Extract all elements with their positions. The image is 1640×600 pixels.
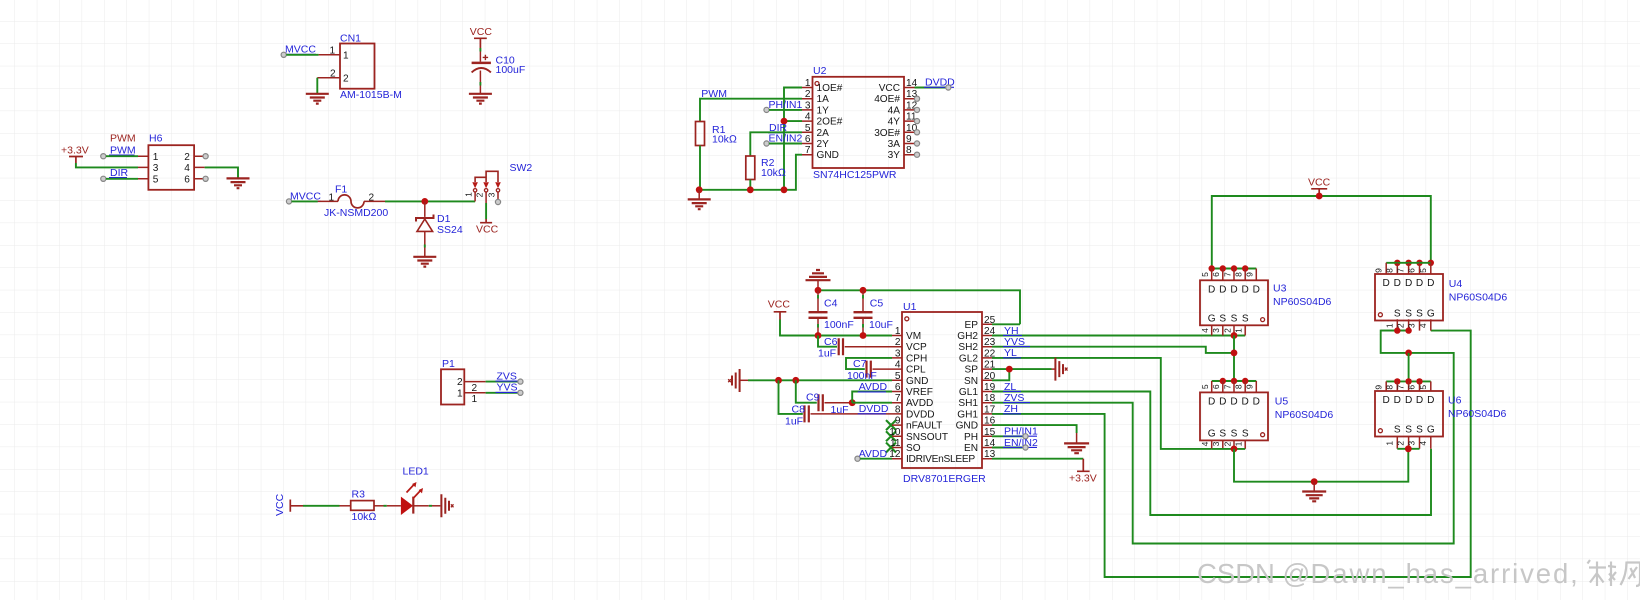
junction C4 bottom xyxy=(815,332,822,339)
svg-text:D: D xyxy=(1416,395,1423,406)
svg-text:GND: GND xyxy=(906,376,928,387)
svg-text:G: G xyxy=(1427,309,1435,320)
svg-text:1: 1 xyxy=(1234,441,1244,446)
svg-text:3: 3 xyxy=(1407,323,1417,328)
wire YL (GL2 to U5 gate) xyxy=(992,358,1212,449)
svg-text:1: 1 xyxy=(464,192,474,197)
svg-text:1Y: 1Y xyxy=(817,105,830,116)
svg-text:D: D xyxy=(1219,397,1226,408)
svg-text:S: S xyxy=(1405,309,1412,320)
svg-text:10kΩ: 10kΩ xyxy=(352,511,377,523)
wire PH/IN1 xyxy=(769,109,802,111)
svg-text:+3.3V: +3.3V xyxy=(61,144,89,156)
svg-text:1: 1 xyxy=(1234,328,1244,333)
svg-text:GND: GND xyxy=(817,150,839,161)
wire CN1 pin2 to ground xyxy=(316,78,318,94)
svg-text:1: 1 xyxy=(472,394,478,405)
net label YVS (P1) xyxy=(496,382,520,394)
svg-text:G: G xyxy=(1208,428,1216,439)
wire Y phase vertical xyxy=(1233,336,1235,382)
svg-text:4OE#: 4OE# xyxy=(874,94,900,105)
power flag VCC (bridge) xyxy=(1308,176,1331,196)
svg-text:5: 5 xyxy=(1200,384,1210,389)
svg-text:D: D xyxy=(1208,285,1215,296)
svg-text:1: 1 xyxy=(1384,323,1394,328)
net label DVDD (U1) xyxy=(858,403,889,415)
svg-text:2: 2 xyxy=(895,337,901,348)
port circle P1 pin2 xyxy=(518,379,523,384)
net label MVCC (F1) xyxy=(289,191,321,203)
svg-text:2: 2 xyxy=(472,383,478,394)
svg-text:1: 1 xyxy=(895,326,901,337)
svg-text:25: 25 xyxy=(984,315,996,326)
U1 pin numbers left xyxy=(889,326,901,460)
svg-text:10uF: 10uF xyxy=(869,319,893,331)
svg-text:3: 3 xyxy=(153,163,159,174)
connector H6 xyxy=(138,132,205,189)
wire DIR to pin5 and R2 xyxy=(750,132,802,156)
no-connect X SNSOUT xyxy=(886,431,896,441)
wire EP lead join xyxy=(992,323,1020,325)
wire R2 to gnd bus xyxy=(749,180,751,190)
svg-text:C5: C5 xyxy=(870,298,884,310)
ground (U1 pin16) xyxy=(1064,443,1089,453)
U6 pin names S S S G xyxy=(1394,425,1435,436)
svg-text:CSDN @Dawn_has_arrived,: CSDN @Dawn_has_arrived, xyxy=(1197,558,1580,589)
svg-text:S: S xyxy=(1242,313,1249,324)
svg-text:D: D xyxy=(1427,395,1434,406)
svg-text:VCC: VCC xyxy=(879,83,900,94)
junction YVS tap xyxy=(1231,350,1238,357)
svg-text:1: 1 xyxy=(343,50,349,61)
svg-text:D: D xyxy=(1219,285,1226,296)
svg-text:SW2: SW2 xyxy=(510,162,533,174)
svg-text:AM-1015B-M: AM-1015B-M xyxy=(340,89,402,101)
svg-text:6: 6 xyxy=(805,134,811,145)
wire gnd bus U2 xyxy=(699,155,802,190)
connector P1 xyxy=(441,358,486,404)
svg-text:SH1: SH1 xyxy=(958,398,978,409)
svg-text:JK-NSMD200: JK-NSMD200 xyxy=(324,207,388,219)
U4 top pin numbers xyxy=(1373,268,1428,273)
capacitor C7 xyxy=(846,358,892,382)
net label EN/IN2 xyxy=(768,133,803,145)
svg-text:GL2: GL2 xyxy=(959,353,978,364)
svg-text:3: 3 xyxy=(1407,441,1417,446)
svg-text:9: 9 xyxy=(1245,384,1255,389)
svg-text:7: 7 xyxy=(1222,272,1232,277)
svg-text:G: G xyxy=(1208,313,1216,324)
wire DIR to H6 pin5 xyxy=(106,178,138,180)
junction gnd bus b xyxy=(747,186,754,193)
U3 pin names D xyxy=(1208,285,1260,296)
svg-text:U3: U3 xyxy=(1273,282,1287,294)
junction U6 source xyxy=(1405,445,1412,452)
junction U3 source to YVS xyxy=(1231,332,1238,339)
svg-text:H6: H6 xyxy=(149,132,163,144)
wire EN/IN2 (pin14) xyxy=(992,447,1025,449)
svg-text:IDRIVEnSLEEP: IDRIVEnSLEEP xyxy=(906,454,975,465)
wire ZVS (P1 pin2) xyxy=(486,381,518,383)
transistor U6 NP60S04D6 xyxy=(1375,381,1507,448)
wire H6 pin4 to ground xyxy=(205,167,238,178)
svg-text:2A: 2A xyxy=(817,128,830,139)
no-connect X SO xyxy=(886,443,896,453)
wire U3 drain bar xyxy=(1212,268,1257,270)
net label ZVS xyxy=(1003,392,1030,404)
svg-text:9: 9 xyxy=(1373,268,1383,273)
wire pin1 bus vertical xyxy=(784,88,802,190)
svg-text:1A: 1A xyxy=(817,94,830,105)
wire MVCC to CN1 pin1 xyxy=(286,54,318,56)
svg-text:S: S xyxy=(1242,428,1249,439)
svg-text:S: S xyxy=(1416,425,1423,436)
no-connect ground (U1 GND pin5) xyxy=(728,369,748,392)
power flag VCC (SW2) xyxy=(476,219,499,236)
svg-text:VCP: VCP xyxy=(906,342,927,353)
port circle EN/IN2 xyxy=(764,141,769,146)
svg-text:6: 6 xyxy=(184,174,190,185)
svg-text:+3.3V: +3.3V xyxy=(1069,473,1097,485)
wire +3.3V to H6 pin3 xyxy=(76,163,138,167)
net label YVS xyxy=(1003,336,1030,348)
U6 top pin numbers xyxy=(1373,385,1428,390)
wire ZVS (SH1 to Z phase) xyxy=(992,331,1454,544)
svg-text:4: 4 xyxy=(184,163,190,174)
svg-text:S: S xyxy=(1219,313,1226,324)
svg-text:F1: F1 xyxy=(335,184,347,196)
net label MVCC xyxy=(284,44,316,56)
svg-text:6: 6 xyxy=(1407,385,1417,390)
port circle PH/IN1 U1 xyxy=(1023,434,1028,439)
junction gnd rail tap xyxy=(1311,478,1318,485)
wire GND row pin5 xyxy=(748,379,892,381)
svg-text:6: 6 xyxy=(895,382,901,393)
svg-text:NP60S04D6: NP60S04D6 xyxy=(1275,409,1334,421)
wire U5 source to gnd rail xyxy=(1234,449,1408,482)
wire F1 to SW2 xyxy=(385,200,475,202)
svg-text:10kΩ: 10kΩ xyxy=(761,167,786,179)
wire VCC to R3 xyxy=(303,505,340,507)
svg-text:2: 2 xyxy=(805,89,811,100)
svg-text:9: 9 xyxy=(1245,272,1255,277)
svg-text:4: 4 xyxy=(805,112,811,123)
wire PWM to H6 pin1 xyxy=(106,155,138,157)
svg-text:NP60S04D6: NP60S04D6 xyxy=(1273,296,1332,308)
svg-text:3: 3 xyxy=(486,192,496,197)
svg-text:S: S xyxy=(1231,313,1238,324)
svg-text:VM: VM xyxy=(906,331,921,342)
U1 pin names right xyxy=(956,320,979,454)
wire stub LED-nc xyxy=(429,505,432,507)
wire VCC to VM row xyxy=(780,320,892,336)
no-connect ground (SP/SN) xyxy=(1052,358,1068,381)
U3 bottom pin numbers xyxy=(1200,328,1244,333)
wire YH (GH2 to U3 gate/sources) xyxy=(992,335,1245,337)
svg-text:12: 12 xyxy=(889,449,901,460)
junction U6 drain pins xyxy=(1394,378,1423,384)
svg-text:CN1: CN1 xyxy=(340,32,361,44)
wire VCC rail to U3/U4 drains xyxy=(1212,196,1431,269)
svg-text:SP: SP xyxy=(965,365,979,376)
net label DIR (U2) xyxy=(768,122,788,134)
svg-text:S: S xyxy=(1416,309,1423,320)
net label PH/IN1 xyxy=(768,99,803,111)
wire MVCC to F1 xyxy=(292,200,318,202)
svg-text:2OE#: 2OE# xyxy=(817,117,843,128)
junction C5 top xyxy=(860,287,867,294)
capacitor C9 xyxy=(796,380,852,416)
svg-text:D: D xyxy=(1405,395,1412,406)
ground (bridge) xyxy=(1302,492,1326,502)
net label DVDD (U2) xyxy=(924,77,955,89)
U3 top pin numbers xyxy=(1200,272,1255,277)
svg-text:NP60S04D6: NP60S04D6 xyxy=(1448,408,1507,420)
svg-text:PH: PH xyxy=(964,432,978,443)
svg-text:D: D xyxy=(1230,285,1237,296)
svg-text:C4: C4 xyxy=(824,298,838,310)
port circle MVCC F1 xyxy=(286,199,291,204)
svg-text:GH1: GH1 xyxy=(957,409,978,420)
svg-text:3Y: 3Y xyxy=(888,150,901,161)
wire YVS (P1 pin1) xyxy=(486,392,518,394)
net label DIR xyxy=(109,167,129,179)
wire SW2 pin2 to VCC xyxy=(485,203,487,219)
svg-text:7: 7 xyxy=(1396,268,1406,273)
resistor R1 xyxy=(696,122,738,146)
wire stub gnd xyxy=(698,190,700,199)
inverted ground (above C4) xyxy=(806,270,831,290)
svg-text:S: S xyxy=(1231,428,1238,439)
svg-text:D: D xyxy=(1405,278,1412,289)
svg-text:U5: U5 xyxy=(1275,396,1289,408)
svg-text:D: D xyxy=(1383,395,1390,406)
svg-text:1: 1 xyxy=(457,388,463,399)
capacitor C10 polarized xyxy=(472,52,526,83)
wire U5 source bar xyxy=(1212,448,1246,450)
junction C4 top xyxy=(815,287,822,294)
svg-text:PWM: PWM xyxy=(110,132,136,144)
svg-text:DVDD: DVDD xyxy=(906,409,935,420)
capacitor C4 xyxy=(809,290,854,335)
svg-text:1uF: 1uF xyxy=(818,347,836,359)
svg-text:7: 7 xyxy=(1396,385,1406,390)
port circle H6 pin2 xyxy=(203,154,208,159)
wire YVS (SH2) xyxy=(992,347,1234,353)
svg-text:4Y: 4Y xyxy=(888,117,901,128)
ground (CN1) xyxy=(306,94,329,104)
svg-text:S: S xyxy=(1394,309,1401,320)
wire PWM net xyxy=(700,99,802,122)
wire GND pin16 xyxy=(992,425,1077,433)
svg-text:1uF: 1uF xyxy=(831,404,849,416)
port circle AVDD xyxy=(855,456,860,461)
junction C5 bottom xyxy=(860,332,867,339)
U4 pin names D xyxy=(1383,278,1435,289)
svg-text:1OE#: 1OE# xyxy=(817,83,843,94)
wire U6 source bar xyxy=(1397,448,1419,450)
port circle H6 pin1 xyxy=(101,154,106,159)
junction U4 drain pins xyxy=(1394,260,1434,266)
svg-text:2: 2 xyxy=(1222,441,1232,446)
svg-text:SNSOUT: SNSOUT xyxy=(906,432,948,443)
svg-text:8: 8 xyxy=(895,404,901,415)
power flag VCC (LED, rotated) xyxy=(274,493,303,516)
svg-text:11: 11 xyxy=(890,438,901,449)
junction VCC rail xyxy=(1316,193,1323,200)
svg-text:3: 3 xyxy=(1211,328,1221,333)
svg-text:D: D xyxy=(1394,278,1401,289)
svg-text:7: 7 xyxy=(805,145,811,156)
LED LED1 xyxy=(387,466,429,516)
svg-text:nFAULT: nFAULT xyxy=(906,421,942,432)
net label EN/IN2 (U1) xyxy=(1003,437,1038,449)
svg-text:D: D xyxy=(1230,397,1237,408)
svg-text:8: 8 xyxy=(1384,385,1394,390)
wire U4 drain bar xyxy=(1386,262,1431,264)
svg-text:VREF: VREF xyxy=(906,387,933,398)
svg-text:C8: C8 xyxy=(792,403,806,415)
svg-text:3: 3 xyxy=(805,100,811,111)
capacitor C8 xyxy=(779,380,893,427)
net label PWM xyxy=(109,144,136,156)
junction Z phase tap xyxy=(1405,350,1412,357)
svg-text:3: 3 xyxy=(895,348,901,359)
ground (C10) xyxy=(469,94,492,104)
svg-text:S: S xyxy=(1394,425,1401,436)
transistor U3 NP60S04D6 xyxy=(1200,269,1332,336)
svg-text:2: 2 xyxy=(457,377,463,388)
svg-text:DRV8701ERGER: DRV8701ERGER xyxy=(903,473,986,485)
net label YH xyxy=(1003,325,1022,337)
wire stub bridge gnd xyxy=(1313,482,1315,491)
svg-text:6: 6 xyxy=(1211,384,1221,389)
svg-text:10kΩ: 10kΩ xyxy=(712,133,737,145)
svg-text:U6: U6 xyxy=(1448,395,1462,407)
svg-text:CPL: CPL xyxy=(906,365,926,376)
port circle EN/IN2 U1 xyxy=(1023,445,1028,450)
diode D1 SS24 schottky xyxy=(416,201,463,244)
svg-text:AVDD: AVDD xyxy=(906,398,933,409)
wire EN/IN2 xyxy=(769,143,802,145)
svg-text:5: 5 xyxy=(153,174,159,185)
svg-text:D: D xyxy=(1383,278,1390,289)
port circle MVCC xyxy=(281,52,286,57)
switch SW2 xyxy=(464,162,533,203)
wire stub R3-LED xyxy=(384,505,387,507)
power flag +3.3V xyxy=(61,144,89,163)
wire VREF AVDD tie xyxy=(852,392,892,403)
svg-text:2: 2 xyxy=(475,192,485,197)
svg-text:D: D xyxy=(1253,285,1260,296)
svg-text:GL1: GL1 xyxy=(959,387,978,398)
svg-text:5: 5 xyxy=(1200,272,1210,277)
svg-text:8: 8 xyxy=(1234,272,1244,277)
svg-text:C7: C7 xyxy=(853,358,867,370)
capacitor C5 xyxy=(854,290,893,335)
U2 pin numbers right xyxy=(906,78,918,156)
junction pin4 node xyxy=(781,118,788,125)
transistor U4 NP60S04D6 xyxy=(1375,263,1507,331)
svg-text:1uF: 1uF xyxy=(785,416,803,428)
wire SP/SN sense xyxy=(992,369,1052,380)
svg-text:C9: C9 xyxy=(806,392,820,404)
net label PH/IN1 (U1) xyxy=(1003,426,1038,438)
U2 pin numbers left xyxy=(805,78,811,156)
svg-text:3OE#: 3OE# xyxy=(874,128,900,139)
svg-text:7: 7 xyxy=(895,393,901,404)
svg-text:VCC: VCC xyxy=(1308,176,1331,188)
svg-text:4: 4 xyxy=(1418,441,1428,446)
svg-text:8: 8 xyxy=(1234,384,1244,389)
U1 pin numbers right xyxy=(984,315,996,460)
svg-text:VCC: VCC xyxy=(470,26,493,38)
wire DVDD (U2 pin14) xyxy=(915,87,946,89)
port circle H6 pin6 xyxy=(203,176,208,181)
wire stub VCC-C10 xyxy=(479,48,481,52)
IC U1 DRV8701ERGER xyxy=(892,301,992,485)
transistor U5 NP60S04D6 xyxy=(1200,381,1333,449)
svg-text:R3: R3 xyxy=(352,488,366,500)
svg-text:D: D xyxy=(1242,397,1249,408)
junction gnd bus c xyxy=(781,186,788,193)
svg-text:D: D xyxy=(1427,278,1434,289)
wire ZL (GL1 to U6 gate) xyxy=(992,392,1431,516)
junction SP node xyxy=(1006,366,1013,373)
svg-text:VCC: VCC xyxy=(768,298,791,310)
svg-text:6: 6 xyxy=(1211,272,1221,277)
wire stub C10-gnd xyxy=(479,82,481,86)
svg-text:9: 9 xyxy=(1373,385,1383,390)
U4 bottom pin numbers xyxy=(1384,323,1428,328)
svg-text:5: 5 xyxy=(805,123,811,134)
junction C9 tap xyxy=(792,377,799,384)
svg-text:4: 4 xyxy=(1200,328,1210,333)
svg-text:1: 1 xyxy=(805,78,811,89)
svg-text:S: S xyxy=(1219,428,1226,439)
svg-text:D: D xyxy=(1416,278,1423,289)
svg-text:8: 8 xyxy=(906,145,912,156)
U5 bottom pin numbers xyxy=(1200,441,1244,446)
svg-text:SN74HC125PWR: SN74HC125PWR xyxy=(813,169,897,181)
port circle H6 pin5 xyxy=(101,176,106,181)
junction U5 source xyxy=(1231,446,1238,453)
wire top gnd rail to EP xyxy=(818,290,1020,324)
ground (H6) xyxy=(227,178,250,188)
wire U4 source bar xyxy=(1381,330,1409,332)
svg-text:SO: SO xyxy=(906,443,921,454)
wire Z phase vertical xyxy=(1408,353,1410,382)
junction C9 node xyxy=(849,399,856,406)
svg-text:4: 4 xyxy=(1200,441,1210,446)
svg-text:2: 2 xyxy=(343,73,349,84)
svg-text:2Y: 2Y xyxy=(817,139,830,150)
net label ZVS (P1) xyxy=(496,370,520,382)
svg-text:SH2: SH2 xyxy=(958,342,978,353)
wire stub D1-gnd xyxy=(424,245,426,248)
svg-text:D: D xyxy=(1253,397,1260,408)
svg-text:6: 6 xyxy=(1407,268,1417,273)
U6 pin names D xyxy=(1383,395,1435,406)
svg-text:D: D xyxy=(1394,395,1401,406)
net label PWM (U2) xyxy=(700,88,727,100)
power flag VCC (U1) xyxy=(768,298,791,319)
junction gnd bus a xyxy=(696,186,703,193)
fuse F1 xyxy=(318,184,389,219)
wire AVDD pin12 xyxy=(860,458,892,460)
port circle SW2 pin3 xyxy=(495,199,500,204)
svg-text:5: 5 xyxy=(1418,385,1428,390)
